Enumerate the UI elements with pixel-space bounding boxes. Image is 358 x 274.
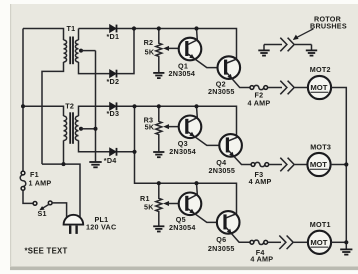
wire: distribution vertical from mid rail to bottom rail	[135, 106, 237, 215]
svg-text:2N3055: 2N3055	[209, 166, 236, 175]
ground: brushes legend right	[306, 50, 317, 55]
wire: D4 output to mid/bottom distribution vertical	[117, 151, 135, 153]
svg-text:T1: T1	[67, 24, 76, 33]
resistor R1 5K potentiometer	[156, 183, 186, 225]
diode D3	[110, 102, 117, 110]
wire: mid positive rail (D3 output)	[117, 106, 237, 138]
wire: left supply vertical from top rail down to fuse F1	[22, 29, 24, 172]
svg-text:Q6: Q6	[216, 235, 226, 244]
motor MOT3	[307, 153, 330, 176]
node: T1 center tap	[79, 49, 83, 53]
transistor Q5 2N3054	[179, 183, 217, 222]
wire: T2 primary bottom to return bus	[63, 140, 65, 164]
fuse F2 4 AMP	[250, 85, 268, 89]
svg-text:*SEE TEXT: *SEE TEXT	[25, 247, 68, 256]
node: junction left vertical / T2 primary	[21, 104, 25, 108]
transistor Q1 2N3054	[179, 29, 218, 68]
transistor Q2 2N3055	[218, 56, 251, 87]
rotor brush contact (MOT3 row)	[280, 158, 294, 172]
svg-text:2N3055: 2N3055	[208, 244, 235, 253]
wire: top rail left segment to T1 primary top	[23, 29, 64, 41]
svg-text:4 AMP: 4 AMP	[250, 255, 273, 264]
node: junction mid rail / distribution vertical	[132, 104, 136, 108]
transistor Q4 2N3055	[219, 134, 251, 164]
wire: T2 center tap to common tap vertical	[81, 128, 96, 130]
wire: brush to MOT1	[294, 241, 308, 243]
wire: top positive rail (D1 output)	[79, 29, 237, 60]
switch S1	[33, 201, 52, 210]
svg-text:1 AMP: 1 AMP	[29, 178, 52, 187]
svg-text:120 VAC: 120 VAC	[86, 222, 116, 231]
fuse F1 1 AMP	[20, 171, 26, 190]
ground: right return bus	[340, 249, 352, 254]
svg-text:4 AMP: 4 AMP	[249, 177, 272, 186]
node: junction R2 top on rail	[157, 26, 161, 30]
wire: MOT3 to right return bus	[331, 164, 347, 166]
ground: brushes legend left	[258, 50, 269, 55]
transistor Q6 2N3055	[217, 211, 250, 242]
svg-text:MOT3: MOT3	[310, 143, 331, 152]
svg-text:S1: S1	[38, 209, 47, 218]
wire: S1 to plug left lead	[52, 203, 66, 218]
node: junction tap vertical / T2 tap	[94, 127, 98, 131]
plug PL1 120 VAC	[64, 215, 84, 234]
wire: brush to MOT3	[295, 164, 308, 166]
node: junction MOT1 on return bus	[344, 240, 348, 244]
wire: MOT1 to right return bus	[331, 241, 346, 243]
diode D4	[110, 148, 117, 156]
wire: F2 to brush gap	[268, 87, 282, 89]
transformer T1	[64, 37, 79, 65]
node: junction R1 top on rail	[157, 181, 161, 185]
svg-text:BRUSHES: BRUSHES	[310, 22, 347, 31]
wire: F3 to brush gap	[269, 164, 282, 166]
wire: T2 primary top feed from left vertical	[23, 106, 64, 116]
ground: below R3	[153, 152, 164, 157]
svg-text:*D4: *D4	[104, 156, 117, 165]
fuse F3 4 AMP	[251, 162, 269, 166]
motor MOT2	[308, 76, 331, 99]
wire: F4 to brush gap	[268, 241, 281, 243]
svg-text:5K: 5K	[144, 202, 154, 211]
wire: primary return bus to plug right lead	[42, 164, 80, 217]
rotor brush contact (MOT2 row)	[280, 81, 294, 95]
svg-text:MOT2: MOT2	[310, 65, 331, 74]
diode D2	[110, 70, 117, 78]
wire: brush to MOT2	[295, 87, 308, 89]
wire: D2 output up to top rail	[117, 29, 134, 74]
wire: T1 primary bottom down to primary return bus	[42, 62, 64, 164]
svg-text:MOT: MOT	[310, 238, 327, 247]
node: junction Q5 collector on bottom rail	[194, 181, 198, 185]
node: T2 center tap	[79, 127, 83, 131]
node: junction R3 top on rail	[157, 104, 161, 108]
wire: T2 secondary top to diode D3	[79, 106, 110, 116]
svg-text:5K: 5K	[145, 48, 155, 57]
svg-text:*D3: *D3	[107, 109, 120, 118]
transistor Q3 2N3054	[179, 106, 220, 145]
rotor brushes callout arrow	[293, 29, 314, 40]
svg-text:*D2: *D2	[107, 77, 120, 86]
node: junction D4 output	[132, 150, 136, 154]
rotor brush contact (MOT1 row)	[279, 236, 293, 250]
wire: T2 secondary bottom to diode D4	[79, 140, 110, 151]
ground: below R2	[153, 73, 164, 78]
rotor brush contact (legend)	[280, 38, 294, 52]
resistor R3 5K potentiometer	[156, 106, 186, 151]
svg-text:MOT1: MOT1	[310, 220, 331, 229]
svg-text:2N3054: 2N3054	[169, 69, 196, 78]
transformer T2	[64, 112, 79, 144]
svg-text:R2: R2	[144, 38, 154, 47]
node: junction MOT3 on return bus	[344, 162, 348, 166]
svg-text:MOT: MOT	[310, 160, 327, 169]
wire: MOT2 to right return bus	[331, 88, 346, 249]
svg-text:2N3054: 2N3054	[169, 223, 196, 232]
motor MOT1	[308, 231, 331, 254]
fuse F4 4 AMP	[250, 240, 268, 244]
node: junction T2 primary bottom on return bus	[62, 162, 66, 166]
svg-text:T2: T2	[65, 101, 74, 110]
ground: center-tap ground below T2	[89, 162, 101, 167]
svg-text:2N3054: 2N3054	[169, 147, 196, 156]
svg-text:MOT: MOT	[310, 83, 327, 92]
node: junction Q1 collector on top rail	[194, 26, 198, 30]
svg-text:*D1: *D1	[107, 32, 120, 41]
rotor brushes legend assembly	[264, 45, 312, 50]
diode D1	[110, 25, 117, 33]
svg-text:5K: 5K	[145, 123, 155, 132]
wire: common center-tap vertical down to ground	[95, 51, 97, 162]
svg-text:4 AMP: 4 AMP	[248, 99, 271, 108]
ground: below R1	[153, 226, 164, 231]
resistor R2 5K potentiometer	[156, 29, 186, 73]
wire: F1 to switch S1	[23, 190, 33, 203]
node: D1/D2 junction on top rail	[132, 26, 136, 30]
svg-text:2N3055: 2N3055	[208, 87, 235, 96]
wire: T1 center tap to common tap vertical	[81, 50, 96, 52]
node: junction Q3 collector on mid rail	[194, 104, 198, 108]
wire: T1 secondary bottom to diode D2	[79, 62, 110, 74]
wire: T1 secondary top to rail	[78, 29, 80, 41]
